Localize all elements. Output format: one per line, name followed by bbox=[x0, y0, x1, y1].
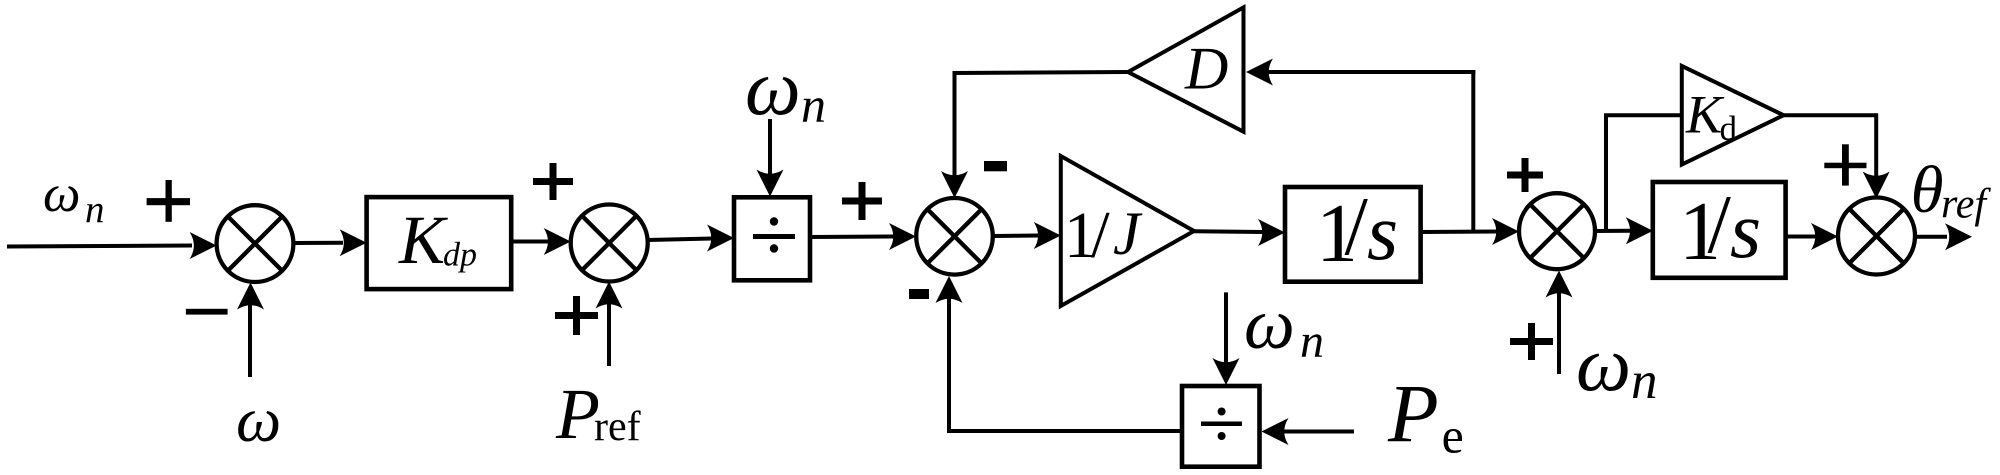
summer S3 X bbox=[927, 209, 981, 263]
arrowhead Pe into div2 bbox=[1262, 418, 1289, 445]
wire Kd branch vertical bbox=[1604, 115, 1608, 231]
wire div2 output vertical up into S3 bbox=[947, 297, 951, 433]
arrowhead into D triangle bbox=[1246, 59, 1273, 86]
plus sign below S4 bbox=[1510, 338, 1553, 345]
summer S1 circle bbox=[217, 205, 294, 282]
block Kdp box bbox=[367, 197, 512, 289]
svg-text:n: n bbox=[85, 188, 105, 231]
wire 1/J to integrator1 bbox=[1194, 229, 1263, 234]
svg-text:P: P bbox=[1387, 368, 1439, 460]
svg-text:J: J bbox=[1113, 201, 1143, 268]
svg-text:ω: ω bbox=[745, 45, 801, 132]
plus sign at S1 input bbox=[147, 198, 190, 205]
wire div2 output horizontal to below S3 bbox=[949, 429, 1182, 433]
svg-text:ω: ω bbox=[43, 165, 80, 223]
svg-text:n: n bbox=[1631, 352, 1658, 410]
divider1 symbol bbox=[753, 234, 795, 239]
summer S5 circle bbox=[1838, 198, 1915, 275]
block divider1 box bbox=[734, 197, 810, 280]
wire S2 to div1 bbox=[648, 239, 712, 241]
block integrator2 1/s box bbox=[1653, 182, 1786, 278]
arrowhead into div1 bbox=[707, 225, 734, 252]
arrowhead into S1 bbox=[190, 232, 217, 259]
svg-text:d: d bbox=[1720, 109, 1738, 148]
arrowhead D-feedback into S3 top bbox=[941, 171, 968, 198]
svg-text:/: / bbox=[1345, 180, 1369, 273]
plus sign above Kdp output bbox=[533, 178, 573, 185]
wire div1 to S3 bbox=[810, 235, 894, 240]
svg-text:D: D bbox=[1184, 35, 1228, 101]
arrowhead omega_n into S4 bottom bbox=[1546, 271, 1573, 298]
wire omega_n up into S4 bbox=[1557, 291, 1561, 374]
arrowhead omega_n into div1 top bbox=[757, 170, 784, 197]
summer S4 X bbox=[1530, 204, 1584, 258]
svg-text:s: s bbox=[1730, 187, 1761, 275]
arrowhead into 1/J bbox=[1034, 222, 1061, 249]
summer S2 circle bbox=[571, 205, 648, 282]
svg-text:ω: ω bbox=[1576, 320, 1631, 407]
minus sign above S3 bbox=[984, 161, 1007, 171]
plus sign above S4 input bbox=[1507, 172, 1543, 179]
plus sign above div1 output bbox=[842, 198, 882, 205]
arrowhead output theta_ref bbox=[1945, 223, 1972, 250]
wire Kdp to S2 bbox=[511, 240, 549, 244]
wire input to S1 bbox=[7, 246, 192, 247]
wire integrator1 to S4 bbox=[1421, 230, 1497, 235]
block integrator1 1/s box bbox=[1285, 187, 1421, 282]
arrowhead into S3 bbox=[889, 223, 916, 250]
wire integrator2 to S5 bbox=[1786, 235, 1816, 239]
divider2 symbol bbox=[1201, 422, 1242, 427]
wire omega_n down into div1 bbox=[768, 119, 772, 175]
svg-text:K: K bbox=[398, 202, 448, 278]
svg-text:n: n bbox=[801, 77, 826, 133]
summer S1 X bbox=[228, 217, 282, 271]
svg-text:s: s bbox=[1367, 189, 1398, 277]
svg-text:/: / bbox=[1091, 198, 1110, 272]
summer S3 circle bbox=[916, 198, 993, 275]
wire D-feedback left vertical into S3 bbox=[953, 71, 957, 177]
arrowhead into S4 bbox=[1492, 218, 1519, 245]
wire Pref up into S2 bbox=[607, 303, 611, 366]
arrowhead into Kdp bbox=[340, 229, 367, 256]
plus sign left of S5 top arrow bbox=[1824, 163, 1866, 169]
wire Kd branch horizontal bbox=[1604, 113, 1682, 117]
wire D-feedback left horizontal bbox=[953, 72, 1129, 73]
arrowhead Kd into S5 top bbox=[1863, 172, 1890, 199]
svg-text:/: / bbox=[1708, 178, 1732, 271]
minus sign left of S3 bottom arrow bbox=[909, 289, 929, 299]
wire S1 to Kdp bbox=[293, 241, 343, 245]
minus sign at S1 bottom bbox=[186, 309, 228, 315]
wire D-feedback right horizontal bbox=[1266, 70, 1475, 74]
block divider2 box bbox=[1182, 386, 1260, 467]
arrowhead into integrator1 bbox=[1258, 219, 1285, 246]
svg-text:ref: ref bbox=[594, 404, 641, 450]
arrowhead into S2 bbox=[544, 228, 571, 255]
wire D-feedback right vertical bbox=[1471, 70, 1475, 232]
plus sign at S2 bottom bbox=[555, 312, 598, 319]
svg-text:θ: θ bbox=[1911, 153, 1944, 227]
wire S4 to integrator2 bbox=[1595, 229, 1631, 233]
gain triangle D bbox=[1128, 7, 1244, 131]
svg-text:ω: ω bbox=[1244, 284, 1295, 364]
summer S5 X bbox=[1849, 209, 1903, 263]
wire omega_n down into div2 bbox=[1224, 292, 1228, 364]
arrowhead div2 output into S3 bottom bbox=[936, 276, 963, 303]
svg-text:dp: dp bbox=[443, 237, 477, 274]
wire Pe into div2 bbox=[1281, 430, 1354, 434]
arrowhead into integrator2 bbox=[1626, 217, 1653, 244]
svg-text:e: e bbox=[1442, 407, 1464, 463]
gain triangle Kd bbox=[1682, 66, 1784, 165]
wire S3 to 1/J bbox=[993, 234, 1039, 239]
arrowhead omega into S1 bottom bbox=[237, 283, 264, 310]
summer S2 X bbox=[582, 216, 636, 270]
wire Kd output vertical down to S5 bbox=[1874, 113, 1878, 178]
svg-text:ref: ref bbox=[1941, 181, 1991, 227]
arrowhead omega_n into div2 top bbox=[1213, 358, 1240, 385]
wire omega up into S1 bbox=[248, 303, 252, 377]
summer S4 circle bbox=[1519, 193, 1595, 269]
wire Kd output horizontal bbox=[1784, 113, 1877, 117]
arrowhead Pref into S2 bottom bbox=[596, 282, 623, 309]
svg-text:n: n bbox=[1300, 315, 1324, 368]
wire S5 to output bbox=[1915, 235, 1947, 239]
gain triangle 1/J bbox=[1061, 156, 1194, 306]
arrowhead into S5 bbox=[1811, 223, 1838, 250]
svg-text:ω: ω bbox=[236, 384, 281, 455]
